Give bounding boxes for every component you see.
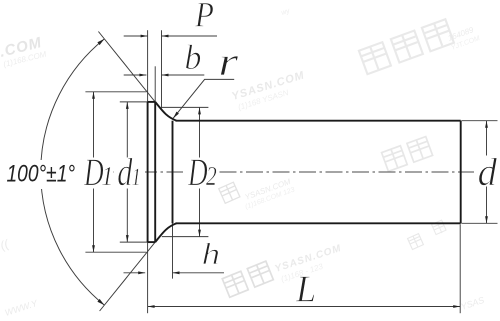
head rim top edge (outline) xyxy=(148,101,156,103)
watermark hanzi bottom xyxy=(222,261,273,297)
head cone and fillet top (outline) xyxy=(155,102,176,121)
extension line: D2 bottom xyxy=(162,236,209,238)
dimension d1 line and arrows xyxy=(126,102,128,158)
svg-text:100°±1°: 100°±1° xyxy=(7,159,76,187)
cone-shank transition edge (outline) xyxy=(172,121,174,224)
rivet head corner edge (outline) xyxy=(154,102,156,242)
head cone and fillet bottom (outline) xyxy=(155,223,176,242)
centerline (axis) xyxy=(87,171,498,173)
svg-text:P: P xyxy=(194,0,214,35)
extension line: cone point for P and b xyxy=(161,30,163,108)
svg-text:D: D xyxy=(187,151,208,194)
watermark hanzi mid xyxy=(219,182,240,203)
dimension D2 line and arrows xyxy=(199,107,201,157)
extension line: shank top right xyxy=(462,120,498,122)
extension line: head face below xyxy=(147,242,149,313)
extension line: D1 bottom xyxy=(85,251,146,253)
extension line: head corner above xyxy=(154,66,156,102)
svg-text:1: 1 xyxy=(132,162,141,190)
dimension D1 line and arrows xyxy=(93,92,95,158)
angle dimension arc 100 degrees xyxy=(41,39,105,305)
dimension d line and arrows xyxy=(486,121,488,156)
extension line: d1 bottom xyxy=(120,241,148,243)
cone surface extension line bottom xyxy=(100,242,156,311)
rivet head face (outline) xyxy=(147,102,149,242)
watermark hanzi in shank xyxy=(382,137,433,172)
shank right end face (outline) xyxy=(460,121,462,224)
extension line: D2 top xyxy=(162,106,209,108)
dimension b lines and arrows xyxy=(124,74,147,76)
leader line and arrow for fillet radius r xyxy=(173,79,234,118)
extension line: D1 top xyxy=(85,91,146,93)
svg-text:r: r xyxy=(218,40,239,84)
dimension P lines and arrows xyxy=(124,35,148,37)
svg-text:L: L xyxy=(295,269,316,311)
shank bottom line (outline) xyxy=(176,222,461,224)
extension line: head face above xyxy=(147,30,149,102)
extension line: shank end below xyxy=(459,225,461,314)
extension line: shank bottom right xyxy=(462,222,498,224)
head rim bottom edge (outline) xyxy=(148,241,156,243)
cone surface extension line top xyxy=(98,32,155,102)
svg-text:1: 1 xyxy=(101,161,113,191)
shank top line (outline) xyxy=(176,120,461,122)
svg-text:b: b xyxy=(185,38,202,77)
svg-text:h: h xyxy=(202,237,221,271)
watermark fragments right xyxy=(408,234,424,250)
watermark hanzi top-right xyxy=(359,19,454,74)
svg-text:d: d xyxy=(478,151,498,194)
svg-text:d: d xyxy=(117,150,133,193)
dimension h lines and arrows xyxy=(124,272,146,274)
extension line: d1 top xyxy=(120,101,148,103)
extension line: head-shank tangent below xyxy=(172,223,174,278)
dimension L line and arrows xyxy=(148,306,461,308)
svg-text:2: 2 xyxy=(206,162,217,192)
